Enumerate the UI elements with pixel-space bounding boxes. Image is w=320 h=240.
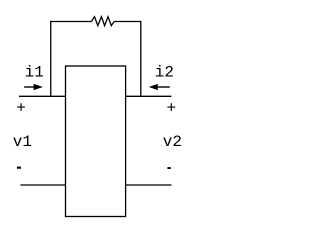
svg-text:+: + (167, 99, 177, 117)
svg-text:+: + (16, 100, 26, 118)
current arrow i1 (24, 84, 42, 89)
svg-text:v1: v1 (13, 133, 32, 151)
wire port2 top lead (126, 95, 172, 97)
wire top horizontal right (114, 21, 141, 23)
minus sign port2 (167, 167, 170, 169)
wire top horizontal left (50, 21, 91, 23)
svg-text:i1: i1 (25, 64, 44, 82)
svg-text:i2: i2 (155, 64, 174, 82)
wire feedback loop left vertical (50, 21, 52, 96)
svg-text:v2: v2 (163, 133, 182, 151)
wire port1 top lead (19, 95, 66, 97)
two-port network box N1 (66, 66, 126, 217)
resistor R (91, 17, 114, 26)
wire port1 bottom lead (20, 184, 65, 186)
wire port2 bottom lead (126, 184, 172, 186)
current arrow i2 (150, 84, 170, 89)
wire feedback loop right vertical (140, 22, 142, 97)
minus sign port1 (17, 167, 21, 169)
